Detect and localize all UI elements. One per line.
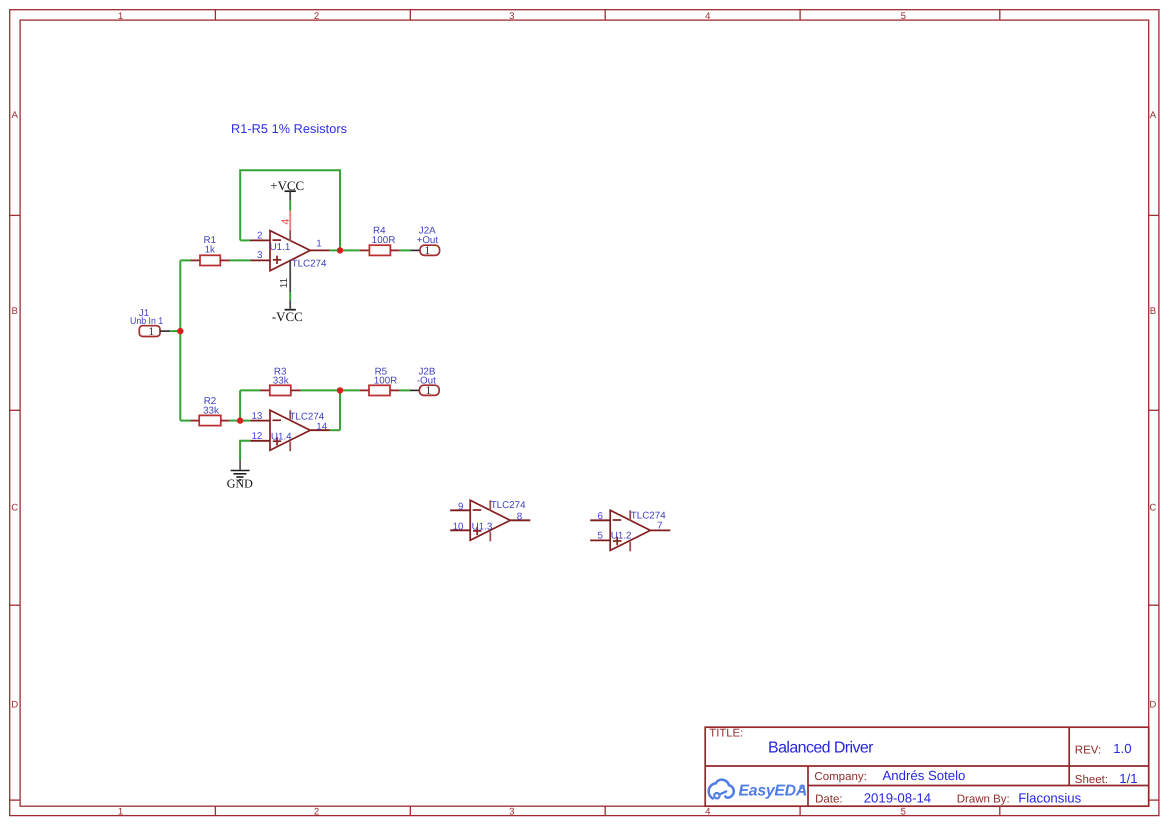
svg-text:1: 1 — [426, 385, 432, 397]
power flag -VCC — [272, 300, 303, 324]
svg-text:TLC274: TLC274 — [289, 411, 324, 422]
svg-text:Date:: Date: — [815, 794, 843, 806]
resistor R4 — [360, 226, 400, 256]
wire: U1.1 pin 11 to -VCC — [289, 292, 291, 300]
svg-text:U1.4: U1.4 — [271, 432, 292, 443]
svg-text:D: D — [11, 700, 18, 711]
svg-text:1: 1 — [118, 11, 123, 22]
svg-text:TITLE:: TITLE: — [709, 727, 743, 739]
EasyEDA logo — [709, 780, 734, 799]
op-amp U1.4 power stub top — [289, 410, 291, 420]
junction: R3 / R5 / U1.4 output node — [337, 387, 343, 393]
wire: output node to R4 — [340, 249, 360, 251]
svg-text:1/1: 1/1 — [1119, 771, 1137, 786]
junction: input node at J1 — [177, 328, 183, 334]
svg-text:1: 1 — [118, 807, 123, 818]
wire: feedback U1.1 output to pin 2 — [240, 170, 340, 250]
svg-text:TLC274: TLC274 — [292, 259, 327, 270]
op-amp U1.4 power stub bottom — [289, 442, 291, 452]
svg-text:-VCC: -VCC — [272, 310, 303, 324]
op-amp U1.1 power pin 4 — [289, 211, 291, 231]
svg-text:A: A — [1150, 110, 1157, 121]
svg-text:2: 2 — [314, 11, 319, 22]
wire: input bus vertical (R1 row to R2 row) — [179, 260, 181, 420]
title block — [705, 727, 1148, 806]
op-amp U1.4 — [250, 410, 330, 451]
svg-text:Andrés Sotelo: Andrés Sotelo — [883, 768, 966, 783]
svg-text:33k: 33k — [203, 406, 219, 417]
svg-text:4: 4 — [280, 219, 292, 225]
svg-text:8: 8 — [517, 512, 523, 523]
svg-text:-Out: -Out — [417, 376, 436, 387]
svg-text:1.0: 1.0 — [1113, 741, 1131, 756]
op-amp U1.3 power stub bottom — [489, 532, 491, 542]
op-amp U1.2 power stub top — [629, 510, 631, 520]
svg-text:+Out: +Out — [417, 235, 439, 246]
wire: GND to U1.4 pin 12 — [240, 441, 250, 460]
svg-text:6: 6 — [598, 511, 604, 522]
svg-text:1k: 1k — [205, 245, 215, 256]
svg-text:EasyEDA: EasyEDA — [739, 782, 808, 799]
svg-text:11: 11 — [279, 277, 290, 288]
connector J2A — [417, 226, 440, 258]
wire: node to U1.4 pin 13 — [240, 420, 250, 422]
svg-text:TLC274: TLC274 — [491, 500, 526, 511]
power flag +VCC — [270, 179, 304, 200]
resistor R3 — [260, 366, 301, 395]
svg-text:Flaconsius: Flaconsius — [1018, 791, 1081, 806]
svg-text:5: 5 — [901, 11, 906, 22]
op-amp U1.3 (spare gate) — [450, 500, 530, 542]
svg-text:100R: 100R — [372, 235, 396, 246]
connector J2B — [417, 366, 439, 397]
svg-text:12: 12 — [251, 431, 262, 442]
op-amp U1.1 — [250, 211, 330, 293]
svg-text:TLC274: TLC274 — [631, 510, 666, 521]
wire: R4 to J2A — [400, 249, 411, 251]
connector J1 — [130, 308, 170, 338]
svg-text:R1-R5 1% Resistors: R1-R5 1% Resistors — [231, 122, 347, 136]
svg-text:2: 2 — [314, 807, 319, 818]
junction: R2 / U1.4 inverting node — [237, 417, 243, 423]
svg-text:3: 3 — [509, 807, 514, 818]
wire: R1 to U1.1 pin 3 — [230, 259, 251, 261]
svg-text:Company:: Company: — [814, 771, 866, 783]
wire: J1 pin to input node — [170, 330, 180, 332]
svg-text:4: 4 — [705, 11, 711, 22]
svg-text:2019-08-14: 2019-08-14 — [864, 791, 931, 806]
svg-text:33k: 33k — [273, 376, 289, 387]
svg-text:5: 5 — [901, 807, 906, 818]
svg-text:100R: 100R — [374, 376, 397, 387]
svg-text:1: 1 — [424, 245, 430, 257]
wire: R5 to J2B — [400, 389, 410, 391]
wire: +VCC to U1.1 pin 4 — [289, 200, 291, 210]
svg-text:1: 1 — [316, 239, 321, 250]
svg-text:Balanced Driver: Balanced Driver — [768, 739, 874, 756]
wire: node to R5 — [340, 389, 360, 391]
svg-text:7: 7 — [657, 520, 662, 531]
svg-text:B: B — [11, 306, 17, 317]
wire: U1.1 output to node — [330, 249, 340, 251]
svg-text:Drawn By:: Drawn By: — [957, 794, 1010, 806]
wire: R2 to node — [230, 420, 237, 422]
op-amp U1.3 power stub top — [489, 500, 491, 510]
svg-text:4: 4 — [705, 807, 711, 818]
op-amp U1.1 power pin 11 — [289, 261, 291, 292]
wire: node down to U1.4 output — [339, 390, 341, 430]
svg-text:U1.1: U1.1 — [270, 242, 291, 253]
svg-text:C: C — [1149, 503, 1156, 514]
resistor R1 — [191, 235, 230, 266]
svg-text:U1.3: U1.3 — [472, 522, 493, 533]
wire: node up to R3 — [239, 390, 241, 420]
svg-text:3: 3 — [257, 250, 263, 261]
svg-text:REV:: REV: — [1075, 744, 1101, 756]
svg-text:Unb In 1: Unb In 1 — [130, 316, 163, 327]
svg-text:B: B — [1150, 306, 1156, 317]
op-amp U1.2 (spare gate) — [590, 510, 670, 551]
svg-text:A: A — [11, 110, 18, 121]
wire: R3 to output node — [301, 389, 341, 391]
wire: U1.4 output to node — [330, 429, 340, 431]
ground GND — [227, 460, 253, 490]
svg-text:9: 9 — [458, 501, 463, 512]
svg-text:13: 13 — [251, 411, 262, 422]
svg-text:Sheet:: Sheet: — [1075, 774, 1108, 786]
svg-text:+VCC: +VCC — [270, 179, 304, 193]
svg-text:U1.2: U1.2 — [611, 530, 632, 541]
svg-text:10: 10 — [453, 522, 464, 533]
svg-text:C: C — [11, 503, 18, 514]
svg-text:14: 14 — [316, 421, 327, 432]
svg-text:GND: GND — [227, 476, 253, 490]
op-amp U1.2 power stub bottom — [629, 542, 631, 552]
svg-text:1: 1 — [148, 326, 154, 338]
svg-text:3: 3 — [509, 11, 514, 22]
svg-text:5: 5 — [598, 530, 604, 541]
resistor R2 — [180, 396, 229, 426]
junction: U1.1 output node — [337, 247, 343, 253]
svg-text:2: 2 — [257, 231, 262, 242]
wire: input node to R1 — [180, 259, 190, 261]
resistor R5 — [360, 366, 400, 395]
svg-text:D: D — [1149, 700, 1156, 711]
